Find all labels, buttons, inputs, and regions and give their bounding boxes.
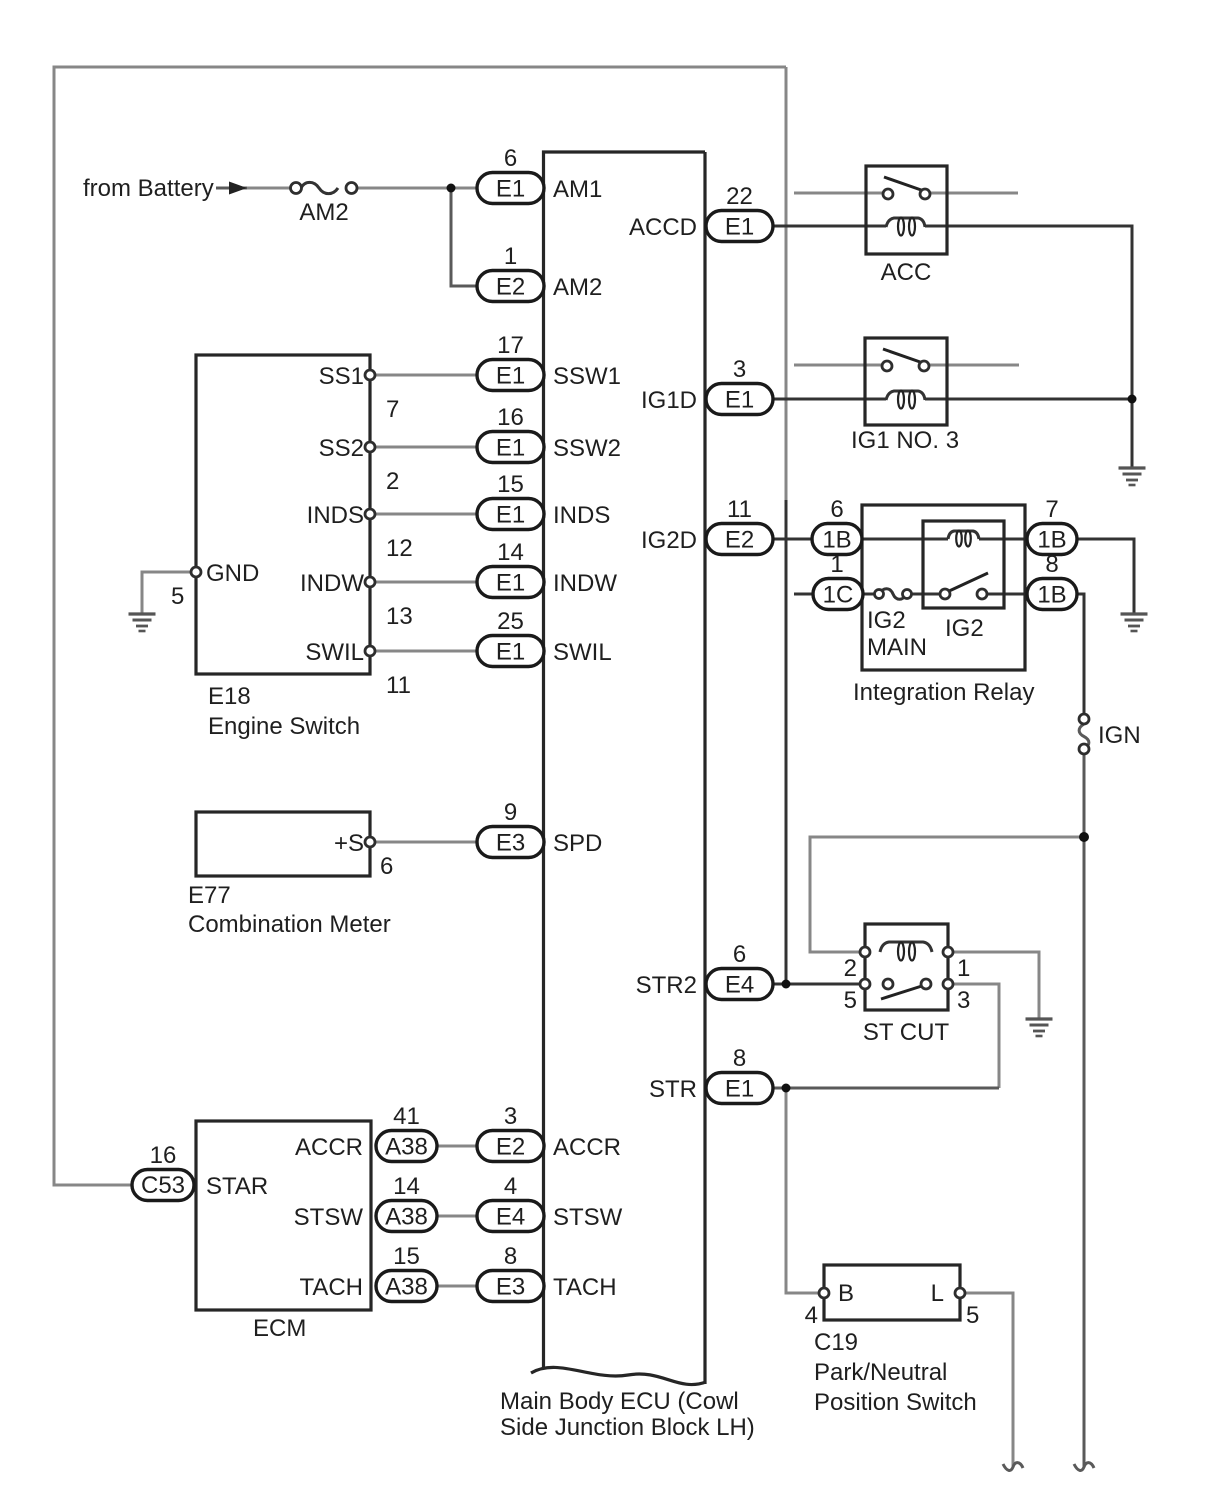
svg-text:8: 8 — [733, 1045, 746, 1072]
svg-text:SSW1: SSW1 — [553, 363, 621, 390]
svg-text:Engine Switch: Engine Switch — [208, 713, 360, 740]
svg-text:B: B — [838, 1280, 854, 1307]
svg-text:6: 6 — [380, 853, 393, 880]
svg-text:+S: +S — [334, 830, 364, 857]
svg-text:IG2: IG2 — [945, 615, 984, 642]
svg-text:E1: E1 — [725, 387, 754, 414]
svg-text:ST CUT: ST CUT — [863, 1019, 950, 1046]
svg-text:AM1: AM1 — [553, 176, 602, 203]
svg-text:E2: E2 — [496, 274, 525, 301]
svg-text:E77: E77 — [188, 882, 231, 909]
svg-text:E3: E3 — [496, 1274, 525, 1301]
svg-text:E2: E2 — [725, 527, 754, 554]
svg-text:IGN: IGN — [1098, 722, 1141, 749]
svg-text:AM2: AM2 — [299, 199, 348, 226]
svg-text:E1: E1 — [496, 502, 525, 529]
svg-text:MAIN: MAIN — [867, 634, 927, 661]
svg-text:A38: A38 — [385, 1274, 428, 1301]
svg-text:25: 25 — [497, 608, 524, 635]
svg-text:STAR: STAR — [206, 1173, 268, 1200]
svg-text:E1: E1 — [496, 176, 525, 203]
svg-text:E4: E4 — [725, 972, 754, 999]
svg-text:IG1D: IG1D — [641, 387, 697, 414]
svg-text:A38: A38 — [385, 1134, 428, 1161]
svg-text:1B: 1B — [822, 527, 851, 554]
svg-text:Park/Neutral: Park/Neutral — [814, 1359, 947, 1386]
svg-text:E1: E1 — [496, 435, 525, 462]
svg-text:E1: E1 — [496, 570, 525, 597]
svg-text:16: 16 — [497, 404, 524, 431]
svg-text:4: 4 — [805, 1302, 818, 1329]
svg-text:STSW: STSW — [294, 1204, 364, 1231]
svg-text:3: 3 — [957, 987, 970, 1014]
svg-text:E4: E4 — [496, 1204, 525, 1231]
svg-text:1C: 1C — [823, 582, 854, 609]
svg-text:TACH: TACH — [299, 1274, 363, 1301]
svg-text:7: 7 — [1045, 496, 1058, 523]
svg-text:2: 2 — [386, 468, 399, 495]
svg-text:16: 16 — [150, 1142, 177, 1169]
svg-text:1: 1 — [830, 551, 843, 578]
svg-text:E1: E1 — [725, 1076, 754, 1103]
svg-text:INDW: INDW — [300, 570, 364, 597]
svg-text:E1: E1 — [496, 363, 525, 390]
svg-text:GND: GND — [206, 560, 259, 587]
svg-text:E2: E2 — [496, 1134, 525, 1161]
svg-text:ACCR: ACCR — [553, 1134, 621, 1161]
svg-text:8: 8 — [504, 1243, 517, 1270]
svg-text:1B: 1B — [1037, 582, 1066, 609]
svg-text:ACC: ACC — [881, 259, 932, 286]
svg-text:17: 17 — [497, 332, 524, 359]
svg-text:INDS: INDS — [553, 502, 610, 529]
svg-text:4: 4 — [504, 1173, 517, 1200]
svg-text:14: 14 — [393, 1173, 420, 1200]
svg-text:3: 3 — [733, 356, 746, 383]
svg-text:Side Junction Block LH): Side Junction Block LH) — [500, 1414, 755, 1441]
svg-text:12: 12 — [386, 535, 413, 562]
svg-text:C53: C53 — [141, 1172, 185, 1199]
svg-text:6: 6 — [733, 941, 746, 968]
svg-text:5: 5 — [171, 583, 184, 610]
svg-text:C19: C19 — [814, 1329, 858, 1356]
svg-text:IG2D: IG2D — [641, 527, 697, 554]
svg-text:Position Switch: Position Switch — [814, 1389, 977, 1416]
svg-text:SPD: SPD — [553, 830, 602, 857]
svg-text:5: 5 — [844, 987, 857, 1014]
svg-text:14: 14 — [497, 539, 524, 566]
svg-text:41: 41 — [393, 1103, 420, 1130]
svg-text:15: 15 — [393, 1243, 420, 1270]
svg-text:SWIL: SWIL — [553, 639, 612, 666]
svg-text:SS1: SS1 — [319, 363, 364, 390]
svg-text:11: 11 — [727, 496, 752, 523]
svg-text:1B: 1B — [1037, 527, 1066, 554]
svg-text:5: 5 — [966, 1302, 979, 1329]
svg-text:6: 6 — [830, 496, 843, 523]
svg-text:E18: E18 — [208, 683, 251, 710]
svg-text:6: 6 — [504, 145, 517, 172]
svg-text:from Battery: from Battery — [83, 175, 214, 202]
svg-text:8: 8 — [1045, 551, 1058, 578]
svg-text:SSW2: SSW2 — [553, 435, 621, 462]
svg-text:L: L — [931, 1280, 944, 1307]
svg-text:3: 3 — [504, 1103, 517, 1130]
svg-text:A38: A38 — [385, 1204, 428, 1231]
svg-text:22: 22 — [726, 183, 753, 210]
svg-text:1: 1 — [504, 243, 517, 270]
svg-text:STR: STR — [649, 1076, 697, 1103]
svg-text:9: 9 — [504, 799, 517, 826]
svg-text:SWIL: SWIL — [305, 639, 364, 666]
svg-text:1: 1 — [957, 955, 970, 982]
svg-text:ECM: ECM — [253, 1315, 306, 1342]
svg-text:IG1 NO. 3: IG1 NO. 3 — [851, 427, 959, 454]
svg-text:ACCR: ACCR — [295, 1134, 363, 1161]
svg-text:Main Body ECU (Cowl: Main Body ECU (Cowl — [500, 1388, 739, 1415]
svg-text:IG2: IG2 — [867, 607, 906, 634]
svg-text:13: 13 — [386, 603, 413, 630]
svg-text:ACCD: ACCD — [629, 214, 697, 241]
svg-text:TACH: TACH — [553, 1274, 617, 1301]
svg-text:STSW: STSW — [553, 1204, 623, 1231]
svg-text:E3: E3 — [496, 830, 525, 857]
svg-text:SS2: SS2 — [319, 435, 364, 462]
svg-text:INDW: INDW — [553, 570, 617, 597]
svg-text:E1: E1 — [725, 214, 754, 241]
svg-text:AM2: AM2 — [553, 274, 602, 301]
svg-text:Integration Relay: Integration Relay — [853, 679, 1034, 706]
svg-text:Combination Meter: Combination Meter — [188, 911, 391, 938]
svg-text:E1: E1 — [496, 639, 525, 666]
svg-text:15: 15 — [497, 471, 524, 498]
svg-text:7: 7 — [386, 396, 399, 423]
svg-text:INDS: INDS — [307, 502, 364, 529]
svg-text:11: 11 — [386, 672, 411, 699]
svg-text:STR2: STR2 — [636, 972, 697, 999]
svg-text:2: 2 — [844, 955, 857, 982]
